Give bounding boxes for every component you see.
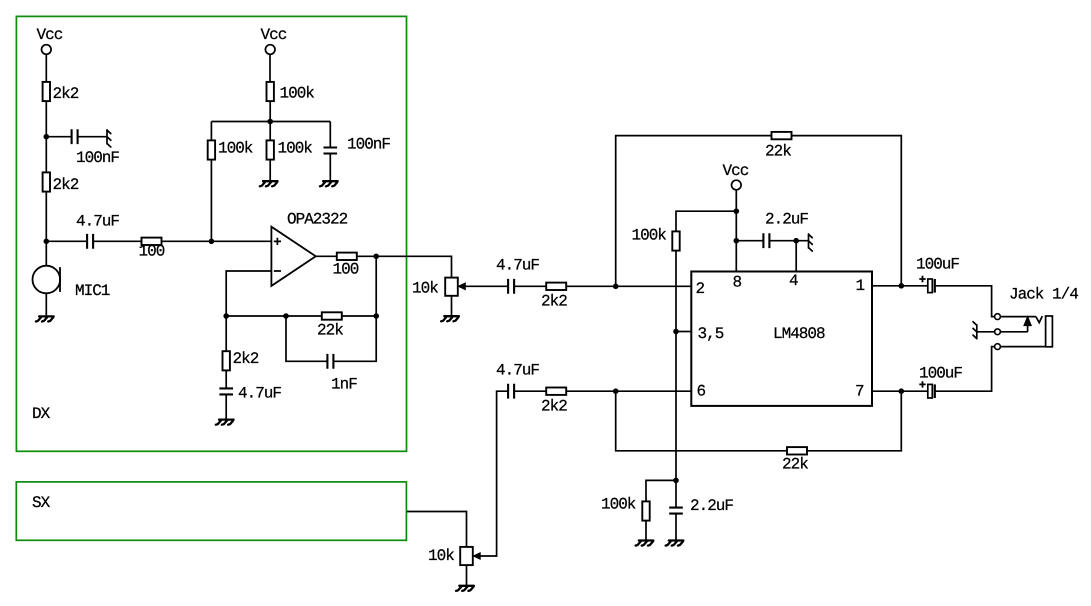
wire R4 to bias rail: [269, 100, 271, 141]
wire C6 to R8: [514, 390, 546, 392]
jack J1 tip terminal: [995, 314, 1001, 320]
capacitor 100uF C9 polarized: [928, 279, 935, 293]
plus sign C9: [919, 276, 925, 282]
wire jack sleeve terminal to body: [1000, 346, 1045, 348]
wire bias node to R11: [646, 480, 676, 501]
wire bottom 22k feedback loop: [616, 391, 902, 451]
wire Vcc1 stem to R1: [45, 54, 47, 82]
svg-text:100k: 100k: [278, 140, 313, 158]
wire left rail R1-R2-MIC node: [45, 101, 47, 266]
wire P1 wiper to C5: [465, 285, 508, 287]
wire opamp output to pot P1: [316, 256, 452, 277]
svg-text:4: 4: [789, 272, 798, 290]
svg-text:100uF: 100uF: [916, 256, 959, 274]
wire 2k2 C4 leg to ground: [225, 316, 227, 419]
svg-text:2.2uF: 2.2uF: [765, 211, 808, 229]
wire Vcc2 stem to R4: [269, 54, 271, 82]
capacitor 1nF C11: [327, 354, 333, 369]
svg-text:4.7uF: 4.7uF: [238, 385, 281, 403]
resistor 100k R5: [208, 140, 215, 159]
capacitor 2.2uF C8: [669, 508, 683, 514]
wire C5 to R7: [514, 285, 546, 287]
wire rail to R5: [210, 122, 212, 142]
svg-text:2.2uF: 2.2uF: [690, 497, 733, 515]
svg-text:100nF: 100nF: [76, 149, 119, 167]
svg-text:22k: 22k: [317, 322, 343, 340]
wire MIC1 to ground: [45, 293, 47, 316]
node junction dots: [44, 119, 905, 484]
power Vcc1: [42, 45, 52, 55]
wire top 22k feedback loop: [616, 136, 902, 287]
resistor 100 R3: [142, 238, 162, 245]
svg-text:Vcc: Vcc: [37, 26, 63, 44]
wire C10 to jack sleeve corner: [935, 347, 995, 392]
capacitor 100uF C10 polarized: [928, 384, 935, 398]
svg-text:MIC1: MIC1: [75, 282, 110, 300]
power Vcc3: [732, 180, 742, 190]
ground below R11: [636, 541, 654, 546]
resistor 22k R15 bottom loop: [787, 447, 807, 454]
svg-text:2k2: 2k2: [233, 350, 259, 368]
wire R5 to plus input node: [210, 159, 212, 241]
svg-text:DX: DX: [32, 405, 51, 423]
wire rail to C3: [329, 122, 331, 148]
wire Vcc3 stem to pin8: [735, 190, 737, 272]
wire C7 to tick and pin4: [769, 241, 808, 272]
wire SX box to pot P2: [407, 512, 467, 547]
svg-text:100: 100: [333, 261, 359, 279]
svg-text:4.7uF: 4.7uF: [496, 257, 539, 275]
wiper arrow P2: [473, 553, 480, 559]
ground below P2: [456, 586, 474, 591]
wire C9 to jack tip corner: [935, 286, 995, 317]
microphone MIC1: [33, 266, 61, 294]
wire R6 to ground: [269, 159, 271, 181]
capacitor 4.7uF C2: [87, 234, 93, 249]
jack J1 ring terminal: [995, 329, 1001, 335]
svg-text:1nF: 1nF: [331, 376, 357, 394]
wire Vcc node to 100k R10 rail: [676, 211, 736, 480]
svg-text:22k: 22k: [782, 456, 808, 474]
IC U1 LM4808 body: [691, 272, 872, 406]
resistor 2k2 R2: [43, 172, 50, 191]
frame DX channel box: [16, 16, 406, 451]
svg-text:100: 100: [139, 243, 165, 261]
wire pin1 to C9: [872, 285, 928, 287]
wire output node down to feedback: [375, 256, 377, 316]
svg-text:10k: 10k: [412, 280, 438, 298]
svg-text:7: 7: [855, 383, 864, 401]
wire C2 to R3 to opamp plus input: [93, 240, 271, 242]
ground below R6: [260, 181, 278, 186]
svg-text:2k2: 2k2: [53, 85, 79, 103]
resistor 22k R12: [322, 312, 342, 319]
wire jack ring terminal to switch stem: [1000, 331, 1027, 333]
potentiometer 10k P1: [445, 278, 458, 296]
ground below C8: [666, 541, 684, 546]
wire opamp minus input loop: [226, 271, 271, 316]
svg-text:8: 8: [733, 274, 742, 292]
wire mic node to C2: [46, 240, 87, 242]
wire 1nF branch: [286, 316, 376, 361]
ground below C3: [320, 181, 338, 186]
wire bias node to C8: [675, 480, 677, 507]
svg-text:Vcc: Vcc: [261, 26, 287, 44]
chassis tick at C1: [107, 130, 111, 147]
svg-text:LM4808: LM4808: [773, 325, 825, 343]
resistor 2k2 R8: [546, 388, 566, 395]
svg-text:SX: SX: [32, 494, 51, 512]
svg-text:1: 1: [856, 277, 865, 295]
jack J1 sleeve terminal: [995, 344, 1001, 350]
wiper arrow P1: [458, 283, 465, 290]
wire bias rail horizontal: [211, 121, 330, 123]
wire feedback row: [226, 315, 376, 317]
power Vcc2: [265, 45, 275, 55]
capacitor 2.2uF C7: [763, 233, 769, 248]
svg-text:OPA2322: OPA2322: [287, 211, 348, 229]
wire C8 to ground: [675, 514, 677, 540]
frame SX channel box: [16, 482, 406, 540]
svg-text:4.7uF: 4.7uF: [496, 362, 539, 380]
resistor 100k R10: [672, 231, 679, 250]
svg-text:100k: 100k: [632, 227, 667, 245]
resistor 2k2 R13: [223, 351, 230, 370]
wire Vcc node to C7: [736, 240, 763, 242]
svg-text:2k2: 2k2: [541, 398, 567, 416]
wire R8 to pin6: [566, 390, 691, 392]
ground below MIC1: [36, 316, 54, 321]
wire R7 to pin2: [566, 285, 691, 287]
svg-text:6: 6: [697, 383, 706, 401]
svg-text:3,5: 3,5: [698, 325, 724, 343]
svg-text:2k2: 2k2: [541, 293, 567, 311]
wire R11 to ground: [645, 521, 647, 540]
resistor 100k R6: [267, 140, 274, 159]
wire jack switch stem: [1027, 325, 1029, 332]
svg-text:10k: 10k: [428, 547, 454, 565]
wire jack tip terminal to body: [1000, 316, 1042, 323]
resistor 100k R11: [642, 501, 649, 520]
svg-text:100k: 100k: [218, 140, 253, 158]
resistor 2k2 R7: [546, 283, 566, 290]
capacitor 100nF C3: [324, 148, 338, 154]
capacitor 100nF C1: [72, 129, 78, 144]
wire pin7 to C10: [872, 390, 928, 392]
svg-text:Jack 1/4: Jack 1/4: [1009, 286, 1078, 304]
ground below C4: [216, 420, 234, 425]
jack J1 body: [1046, 316, 1053, 347]
jack J1 switch arrow: [1024, 317, 1031, 326]
resistor 2k2 R1: [43, 82, 50, 101]
capacitor 4.7uF C4: [219, 388, 233, 394]
svg-text:22k: 22k: [765, 143, 791, 161]
capacitor 4.7uF C6: [508, 384, 514, 399]
svg-text:100uF: 100uF: [919, 365, 962, 383]
wire C3 to ground: [329, 153, 331, 181]
resistor 22k R14 top loop: [772, 132, 792, 139]
svg-text:2k2: 2k2: [53, 176, 79, 194]
resistor 100 R9: [337, 253, 357, 260]
wire pot P2 to ground: [466, 566, 468, 586]
svg-text:100nF: 100nF: [347, 136, 390, 154]
wire pin3,5 stub: [676, 331, 691, 333]
wire pot P1 to ground: [451, 296, 453, 316]
svg-text:100k: 100k: [280, 85, 315, 103]
chassis tick at C7: [809, 234, 813, 251]
wire node A to C1: [46, 136, 71, 138]
ground below P1: [441, 316, 459, 321]
potentiometer 10k P2: [460, 547, 473, 565]
resistor 100k R4: [267, 82, 274, 101]
svg-text:Vcc: Vcc: [723, 162, 749, 180]
wire C1 to chassis tick: [78, 136, 107, 138]
wire C6 left leg down to P2 wiper: [480, 391, 509, 556]
svg-text:2: 2: [696, 280, 705, 298]
op-amp U2 OPA2322: [271, 227, 315, 286]
capacitor 4.7uF C5: [508, 279, 514, 294]
chassis tick at jack ring: [973, 322, 977, 339]
svg-text:100k: 100k: [601, 496, 636, 514]
plus sign C10: [919, 381, 925, 387]
svg-text:4.7uF: 4.7uF: [76, 213, 119, 231]
wire jack ring terminal to tick: [977, 331, 995, 333]
